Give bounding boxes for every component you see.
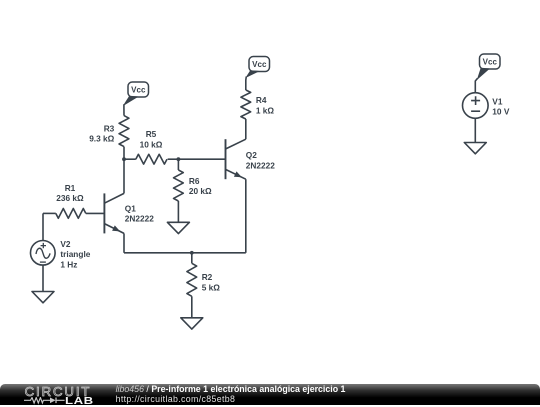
footer caption text [116, 384, 346, 403]
svg-text:Q2: Q2 [246, 150, 257, 160]
label V1 10 V [492, 96, 510, 116]
svg-text:R5: R5 [146, 129, 157, 139]
svg-text:5 kΩ: 5 kΩ [202, 283, 221, 293]
source V2 triangle 1Hz [31, 213, 56, 291]
wire: bottom rail Q1 emitter to Q2 emitter [124, 252, 246, 254]
resistor R3 9.3k vertical [119, 116, 129, 160]
svg-text:triangle: triangle [60, 249, 90, 259]
svg-text:2N2222: 2N2222 [125, 214, 154, 224]
transistor Q1 2N2222 [104, 193, 124, 233]
Vcc flag (above R4) [246, 57, 269, 78]
resistor R1 236k horizontal [43, 209, 105, 219]
svg-text:R4: R4 [256, 95, 267, 105]
label V2 triangle 1 Hz [60, 239, 90, 270]
ground (below R6) [167, 222, 189, 233]
wire: Q1 collector up to junction [123, 159, 125, 193]
Vcc flag (above V1) [478, 54, 500, 79]
svg-text:R3: R3 [104, 123, 115, 133]
resistor R2 5k vertical [187, 253, 197, 318]
resistor R4 1k vertical [241, 90, 251, 139]
svg-text:R2: R2 [202, 272, 213, 282]
wire: Vcc flag to V1 [475, 78, 477, 93]
label R5 10 kOhm [140, 129, 163, 149]
wire: junction to Q2 base [178, 158, 225, 160]
svg-text:1 Hz: 1 Hz [60, 259, 77, 269]
ground (below V1) [464, 143, 486, 154]
resistor R6 20k vertical [174, 159, 184, 222]
wire: Vcc flag to R3 top [123, 104, 125, 115]
svg-text:V1: V1 [492, 96, 503, 106]
svg-text:Vcc: Vcc [131, 86, 146, 95]
CircuitLab logo [0, 384, 100, 405]
svg-text:Vcc: Vcc [483, 58, 498, 67]
node: junction bottom rail / R2 [190, 251, 194, 255]
svg-text:V2: V2 [60, 239, 71, 249]
svg-text:9.3 kΩ: 9.3 kΩ [89, 133, 114, 143]
node: junction R5/R6/Q2-base [177, 157, 181, 161]
svg-text:R1: R1 [65, 183, 76, 193]
wire: Q2 emitter down to bottom rail [245, 179, 247, 253]
svg-text:2N2222: 2N2222 [246, 160, 275, 170]
svg-text:236 kΩ: 236 kΩ [56, 193, 84, 203]
svg-text:Vcc: Vcc [252, 60, 267, 69]
transistor Q2 2N2222 [226, 139, 246, 179]
node: junction R3/R5/Q1-collector [122, 157, 126, 161]
label Q2 2N2222 [246, 150, 275, 170]
svg-text:R6: R6 [189, 176, 200, 186]
svg-text:10 V: 10 V [492, 107, 510, 117]
label R2 5 kOhm [202, 272, 221, 293]
wire: Q1 emitter down to bottom rail [123, 233, 125, 252]
ground (below V2) [32, 292, 54, 303]
svg-text:10 kΩ: 10 kΩ [140, 140, 163, 150]
ground (below R2) [181, 318, 203, 329]
svg-text:1 kΩ: 1 kΩ [256, 106, 275, 116]
svg-text:Q1: Q1 [125, 203, 136, 213]
wire: Vcc flag to R4 top [245, 77, 248, 91]
label Q1 2N2222 [125, 203, 154, 223]
label R3 9.3 kOhm [89, 123, 114, 143]
label R6 20 kOhm [189, 176, 212, 196]
Vcc flag (net Vcc, above R3) [124, 82, 149, 105]
svg-text:20 kΩ: 20 kΩ [189, 186, 212, 196]
label R1 236 kOhm [56, 183, 84, 203]
resistor R5 10k horizontal [124, 154, 178, 164]
source V1 10V DC [463, 93, 489, 143]
label R4 1 kOhm [256, 95, 275, 116]
